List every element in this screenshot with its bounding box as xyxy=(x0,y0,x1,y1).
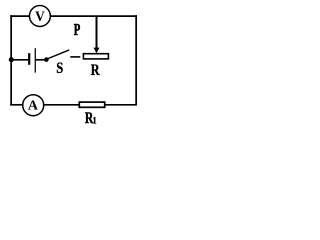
svg-text:V: V xyxy=(35,9,45,24)
svg-text:A: A xyxy=(28,98,38,113)
wire switch contact to rheostat xyxy=(70,56,80,58)
svg-text:S: S xyxy=(56,60,63,78)
battery negative plate (short thick) xyxy=(28,53,30,65)
svg-text:R: R xyxy=(91,62,100,80)
svg-text:1: 1 xyxy=(92,115,97,126)
wire battery right lead xyxy=(35,59,44,61)
switch S blade xyxy=(47,50,69,59)
wire battery left lead xyxy=(11,59,28,61)
wire bottom-right segment xyxy=(105,104,137,106)
wire right rail xyxy=(135,15,137,105)
wire top-right segment xyxy=(50,15,137,17)
wire top-left segment xyxy=(10,15,29,17)
voltmeter V xyxy=(29,6,50,27)
wire bottom-middle segment xyxy=(44,104,79,106)
label R1 xyxy=(85,109,97,127)
wire left rail xyxy=(10,15,12,105)
switch S pivot dot xyxy=(44,57,49,62)
svg-text:P: P xyxy=(74,21,81,40)
ammeter A xyxy=(23,95,44,116)
wire bottom-left segment xyxy=(10,104,22,106)
slider arrowhead xyxy=(94,48,100,54)
wire slider drop xyxy=(96,16,98,49)
battery positive plate (long thin) xyxy=(35,48,36,72)
rheostat R box xyxy=(83,54,108,59)
node junction dot on left rail xyxy=(9,57,14,62)
resistor R1 box xyxy=(79,102,104,107)
